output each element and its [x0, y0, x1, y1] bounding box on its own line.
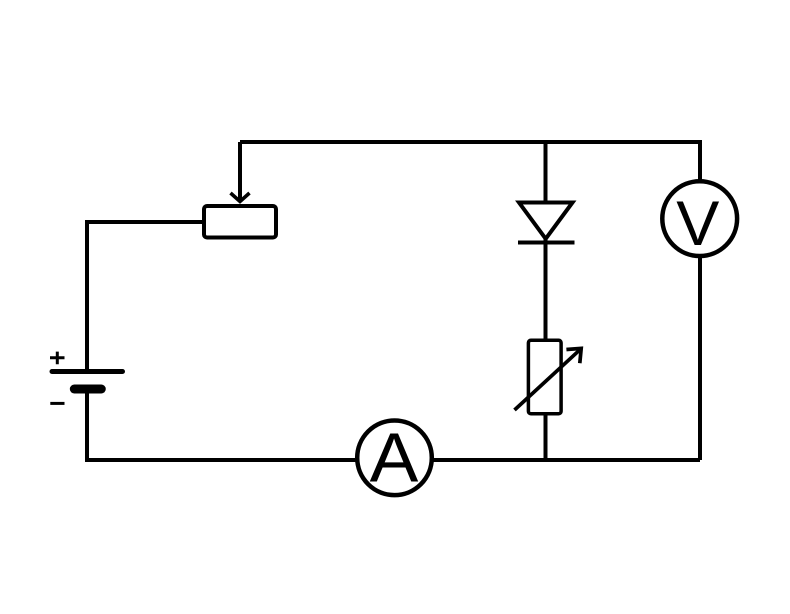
svg-text:V: V	[676, 189, 719, 259]
svg-text:A: A	[370, 419, 419, 497]
